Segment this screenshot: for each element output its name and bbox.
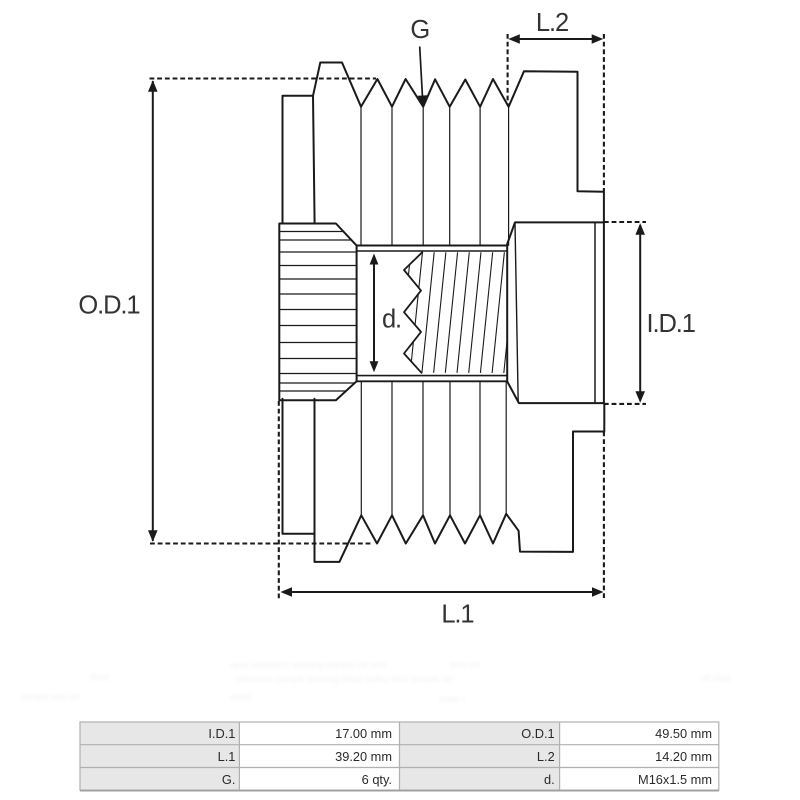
groove wall thin lines (top) <box>361 108 509 246</box>
cap inner edge line <box>594 223 596 403</box>
O.D.1 top dashed extension <box>150 77 377 79</box>
L.2 right dashed extension <box>603 34 605 192</box>
I.D.1 bottom dashed extension <box>604 403 646 405</box>
svg-text:49.50 mm: 49.50 mm <box>655 726 712 741</box>
L.2 arrowheads <box>508 34 520 44</box>
svg-text:G: G <box>410 16 429 44</box>
L.1 right dashed extension <box>603 432 605 599</box>
bore wall top band <box>357 245 508 247</box>
svg-text:39.20 mm: 39.20 mm <box>335 749 392 764</box>
left collar strip (bottom) <box>283 399 315 534</box>
groove wall thin lines (bottom) <box>361 382 506 515</box>
svg-text:L.2: L.2 <box>536 9 568 37</box>
svg-text:detail: detail <box>230 692 252 702</box>
svg-text:O.D.1: O.D.1 <box>78 292 139 320</box>
arrowheads <box>148 34 645 597</box>
svg-text:6 qty.: 6 qty. <box>362 772 392 787</box>
top profile: flange, grooves, right rim <box>313 63 604 223</box>
knurled clutch hub block <box>279 224 356 401</box>
I.D.1 dimension line <box>639 225 641 401</box>
svg-text:14.20 mm: 14.20 mm <box>655 749 712 764</box>
d. dimension line <box>373 256 375 369</box>
thread hatch lines <box>398 252 516 375</box>
bottom profile: flange, grooves, right rim <box>315 399 605 562</box>
L.2 left dashed extension <box>507 34 509 106</box>
svg-text:reference sample drawing detai: reference sample drawing detail pulley i… <box>235 674 453 684</box>
svg-text:M16x1.5 mm: M16x1.5 mm <box>638 772 712 787</box>
svg-text:17.00 mm: 17.00 mm <box>335 726 392 741</box>
svg-text:I.D.1: I.D.1 <box>647 310 695 338</box>
O.D.1 dimension line <box>152 81 154 541</box>
knurl rib lines <box>279 232 357 392</box>
table bottom border <box>80 790 719 792</box>
left collar strip (top) <box>283 96 315 224</box>
G leader line <box>420 47 423 96</box>
L.2 dimension line <box>511 38 600 40</box>
svg-text:draw: draw <box>90 672 110 682</box>
cap chamfer inner edge <box>515 223 518 403</box>
d. arrowheads <box>370 254 379 265</box>
L.1 left dashed extension <box>278 401 280 599</box>
svg-text:item ref: item ref <box>450 660 481 670</box>
table grid <box>80 722 719 790</box>
svg-text:d.: d. <box>382 306 401 334</box>
svg-text:I.D.1: I.D.1 <box>208 726 235 741</box>
right end cap <box>507 222 604 403</box>
svg-text:O.D.1: O.D.1 <box>521 726 554 741</box>
svg-text:ref data: ref data <box>700 673 731 683</box>
O.D.1 arrowheads <box>148 80 158 92</box>
O.D.1 bottom dashed extension <box>150 542 373 544</box>
watermark smudges <box>20 660 731 704</box>
bore wall bottom band <box>357 375 508 377</box>
internal thread zigzag <box>404 252 422 373</box>
table text <box>208 726 712 787</box>
svg-text:d.: d. <box>544 772 555 787</box>
I.D.1 top dashed extension <box>604 221 646 223</box>
table label cells background <box>80 722 560 790</box>
L.1 arrowheads <box>281 587 293 597</box>
I.D.1 arrowheads <box>635 223 645 235</box>
G arrowhead <box>418 95 428 107</box>
svg-text:mark t: mark t <box>440 694 466 704</box>
svg-text:G.: G. <box>222 772 236 787</box>
L.1 dimension line <box>284 591 601 593</box>
svg-text:sample text ref: sample text ref <box>20 692 80 702</box>
svg-text:L.2: L.2 <box>537 749 555 764</box>
svg-text:spec reference drawing sample: spec reference drawing sample ref and <box>230 660 386 670</box>
svg-text:L.1: L.1 <box>441 601 473 629</box>
svg-text:L.1: L.1 <box>218 749 236 764</box>
